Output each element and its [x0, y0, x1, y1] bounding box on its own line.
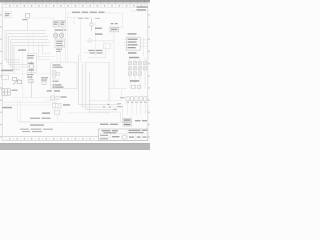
center-right wires	[84, 45, 126, 101]
labels under TS1	[127, 102, 147, 103]
wire below C3	[56, 114, 58, 121]
label below K1	[56, 49, 62, 52]
small box below C3	[55, 110, 60, 114]
title text string top	[72, 12, 105, 13]
terminal strip TS1 bottom right	[126, 97, 147, 101]
relay coil marks K3	[28, 63, 34, 71]
band ticks top	[6, 0, 145, 2]
notes box text	[5, 13, 10, 16]
wire grid left of K1	[36, 44, 55, 60]
connector box C3	[53, 103, 62, 108]
zone digits bottom	[9, 138, 91, 140]
flasher K3 text	[27, 55, 34, 59]
switch cluster center	[51, 96, 60, 99]
revision table underline	[130, 10, 148, 12]
wire left horizontal	[1, 73, 51, 75]
connector J1 text	[128, 39, 138, 49]
harness corner bus bottom-center	[79, 54, 123, 112]
key switch S1 label	[23, 19, 28, 20]
relay contact grid	[2, 89, 10, 95]
indicator lamp L1	[53, 33, 57, 37]
title block dividers	[99, 129, 148, 141]
sheet border frame	[2, 4, 148, 141]
fuse block drops	[130, 58, 145, 89]
scan bottom edge band	[0, 143, 150, 150]
buzzer BZ1	[29, 62, 34, 98]
gauge symbol pair G1 G2	[53, 20, 66, 27]
pin stubs J1	[124, 37, 148, 56]
border zone strip bottom	[2, 136, 98, 138]
key switch S1	[26, 14, 30, 18]
wire gauge drops	[56, 27, 63, 40]
marks right of stacked connector	[135, 120, 147, 121]
enclosure inner contacts	[53, 71, 61, 80]
module enclosure box	[51, 62, 78, 88]
label bottom-left	[3, 107, 51, 126]
zone letters left	[0, 14, 1, 138]
zone digits top	[9, 5, 142, 7]
wire h at 100.6	[46, 100, 58, 102]
revision text top-right	[137, 6, 148, 10]
wire top-center	[33, 17, 55, 19]
label below fuse block	[130, 80, 139, 82]
wires left cluster	[6, 95, 55, 97]
stacked connector above title block	[123, 118, 131, 126]
wire from S1	[27, 18, 29, 30]
fuse block FB1	[129, 61, 147, 75]
note text mid-bottom	[30, 118, 51, 119]
title block company text	[102, 130, 148, 134]
wires below TS1	[128, 101, 146, 115]
subtitle text row	[78, 18, 100, 19]
contact box below K3	[29, 79, 33, 83]
wire harness corner bus left	[5, 31, 50, 74]
wires into title area	[90, 101, 122, 123]
label left of TS1	[120, 97, 125, 98]
wire long horizontal y113	[66, 112, 110, 114]
connector J1 right	[126, 37, 140, 50]
relay box K2	[110, 27, 118, 32]
junction dots	[103, 104, 111, 108]
zone letters right	[148, 14, 149, 138]
wire verticals top-center	[66, 7, 96, 62]
wire and diode cluster right-center	[84, 32, 114, 89]
label above fuse block	[129, 57, 139, 58]
notes box top-left	[4, 12, 11, 18]
contact cluster below K3	[27, 74, 34, 78]
label left	[1, 70, 13, 72]
label right of switch cluster	[61, 96, 67, 97]
label between symbol rows	[55, 29, 67, 30]
text under fuse	[95, 28, 103, 35]
border zone strip top	[2, 4, 147, 8]
relay K2 labels	[111, 23, 118, 30]
stacked connector text	[124, 119, 130, 125]
wires mid-left	[23, 30, 33, 101]
label below J1	[128, 52, 137, 54]
diode pair right	[132, 85, 141, 88]
wire K1 to enclosure	[57, 48, 61, 62]
label right of contact grid	[12, 90, 18, 91]
component box K1 text	[56, 41, 63, 47]
zone ticks bottom	[6, 137, 94, 141]
wire vertical right-top	[110, 13, 122, 28]
indicator lamp L2	[59, 33, 63, 37]
junction marks right of harness	[113, 103, 122, 110]
label below enclosure	[47, 90, 60, 91]
fuse F1	[90, 18, 93, 31]
gauge pair text	[54, 22, 65, 25]
wire horizontals top	[66, 13, 122, 25]
wire inside enclosure	[54, 66, 56, 103]
component box K1	[55, 39, 65, 48]
text right of connector	[63, 104, 70, 105]
scan top edge band	[0, 0, 150, 2]
sender unit cluster	[41, 77, 48, 80]
bottom-left bus wires	[4, 100, 129, 123]
flasher box K3	[27, 53, 36, 72]
enclosure text rows	[53, 64, 64, 87]
text left of stacked connector	[100, 124, 118, 125]
small box left cluster A	[2, 75, 9, 79]
label mid-left	[18, 49, 26, 50]
title block logo	[123, 135, 127, 139]
label above J1	[128, 33, 137, 34]
title block small text	[100, 135, 147, 140]
notes text row bottom	[20, 129, 53, 133]
switch cluster left	[13, 77, 22, 84]
title block	[99, 129, 148, 141]
label cluster center-right	[89, 50, 103, 54]
